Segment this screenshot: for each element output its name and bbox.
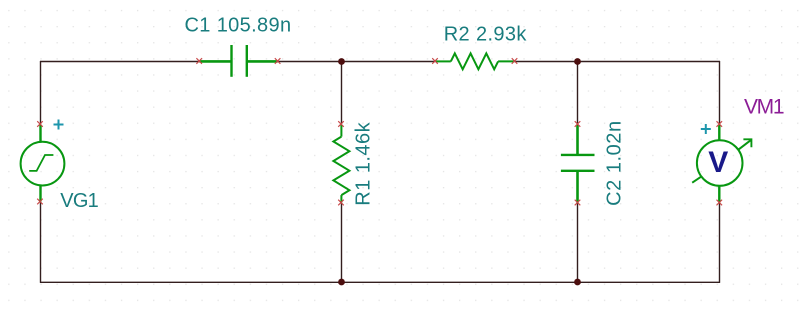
junction bottom right (C2)	[574, 279, 581, 286]
svg-text:R1 1.46k: R1 1.46k	[352, 121, 374, 205]
terminal x R2 left	[432, 58, 438, 64]
svg-text:C2 1.02n: C2 1.02n	[603, 121, 625, 206]
junction node B top	[574, 58, 581, 65]
terminal x C2 bottom	[575, 200, 581, 206]
svg-text:C1 105.89n: C1 105.89n	[185, 14, 292, 36]
svg-text:VM1: VM1	[744, 95, 785, 118]
terminal x VM1 bottom	[717, 200, 723, 206]
svg-text:V: V	[708, 146, 728, 179]
VM1 plus sign	[701, 124, 711, 134]
wire left vertical upper	[40, 61, 42, 124]
terminal x R1 bottom	[338, 200, 344, 206]
svg-text:R2 2.93k: R2 2.93k	[444, 23, 528, 45]
capacitor C1	[200, 45, 278, 77]
terminal x R2 right	[512, 58, 518, 64]
VM1 arrow lower segment	[692, 177, 701, 183]
wire middle vertical upper (node A to R1)	[341, 62, 343, 125]
svg-text:VG1: VG1	[60, 190, 99, 212]
terminal x VG1 bottom	[37, 199, 43, 205]
voltmeter VM1	[692, 125, 751, 203]
wire middle vertical lower (R1 to bottom)	[341, 203, 343, 282]
resistor R2	[436, 53, 515, 69]
VM1 arrow upper segment with head	[738, 140, 751, 150]
wire C2 vertical lower	[577, 203, 579, 282]
voltage generator VG1	[21, 125, 65, 202]
junction node A top	[338, 58, 345, 65]
wire right vertical lower	[719, 203, 721, 283]
terminal x C2 top	[575, 121, 581, 127]
terminal x VG1 top	[37, 121, 43, 127]
junction bottom left (R1)	[338, 279, 345, 286]
wire right vertical upper	[719, 61, 721, 124]
wire left vertical lower	[40, 202, 42, 283]
terminal x C1 left	[196, 58, 202, 64]
terminal x R1 top	[338, 121, 344, 127]
capacitor C2	[561, 125, 595, 203]
wire C2 vertical upper (node B to C2)	[577, 62, 579, 125]
wire node A to R2 left	[342, 61, 436, 63]
VG1 plus sign	[54, 120, 64, 130]
resistor R1	[333, 125, 349, 203]
wire top-left horizontal segment	[40, 61, 200, 63]
terminal x VM1 top	[717, 121, 723, 127]
wire bottom horizontal	[40, 281, 720, 283]
terminal x C1 right	[275, 58, 281, 64]
wire C1 right to node A	[278, 61, 342, 63]
wire R2 right to node B	[515, 61, 578, 63]
wire node B to top-right corner	[578, 61, 721, 63]
